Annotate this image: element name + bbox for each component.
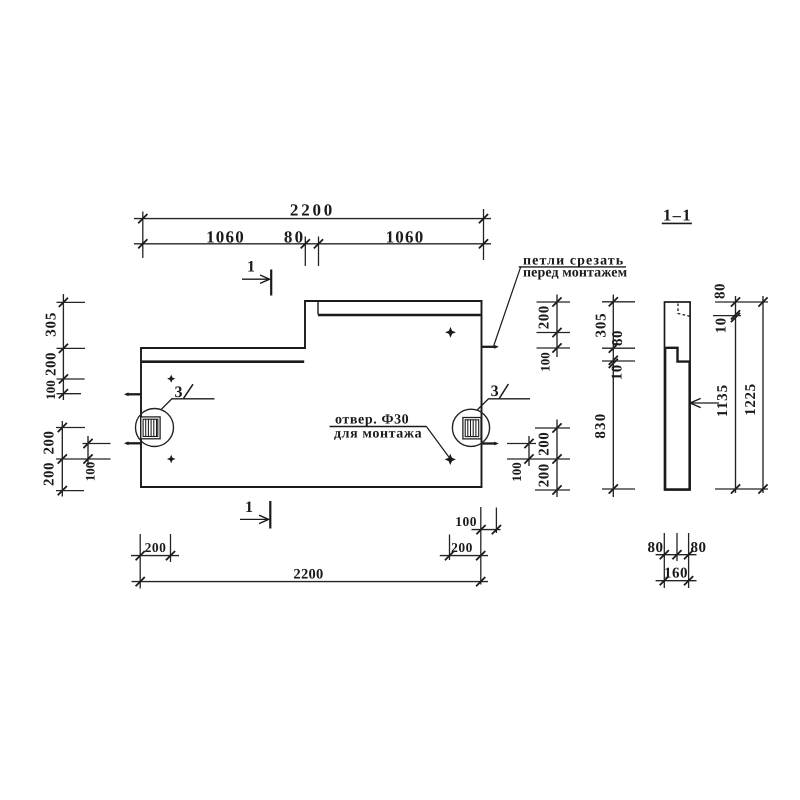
svg-text:200: 200 [42,462,58,486]
svg-text:отвер. Ф30: отвер. Ф30 [335,413,409,428]
svg-text:10: 10 [610,364,626,380]
svg-text:перед монтажем: перед монтажем [523,266,628,281]
svg-text:830: 830 [593,413,609,439]
svg-text:10: 10 [713,317,729,333]
svg-text:1225: 1225 [743,383,759,415]
svg-text:100: 100 [43,380,58,400]
svg-text:100: 100 [455,514,477,529]
svg-text:305: 305 [44,312,60,337]
svg-text:80: 80 [648,540,664,556]
svg-text:3: 3 [175,384,183,401]
svg-text:200: 200 [537,432,553,456]
svg-text:2200: 2200 [293,567,323,583]
svg-text:200: 200 [44,352,60,376]
svg-text:1: 1 [247,259,255,276]
svg-text:200: 200 [537,463,553,487]
svg-text:100: 100 [83,462,98,482]
svg-text:1135: 1135 [715,384,731,417]
svg-text:80: 80 [610,330,626,346]
svg-text:80: 80 [691,540,707,556]
svg-text:100: 100 [538,352,553,372]
svg-text:80: 80 [712,283,728,299]
svg-text:1: 1 [245,499,253,516]
svg-text:3: 3 [491,383,499,400]
svg-text:1060: 1060 [206,228,245,247]
svg-text:100: 100 [509,462,524,482]
svg-text:305: 305 [594,313,610,338]
svg-text:1060: 1060 [386,228,425,247]
svg-text:2200: 2200 [290,200,335,219]
svg-text:160: 160 [664,565,688,581]
svg-text:200: 200 [42,431,58,455]
svg-text:для монтажа: для монтажа [334,427,422,442]
svg-text:200: 200 [145,540,167,555]
svg-text:200: 200 [537,305,553,329]
svg-text:80: 80 [284,228,305,247]
svg-text:1–1: 1–1 [663,206,692,225]
svg-text:200: 200 [451,540,473,555]
